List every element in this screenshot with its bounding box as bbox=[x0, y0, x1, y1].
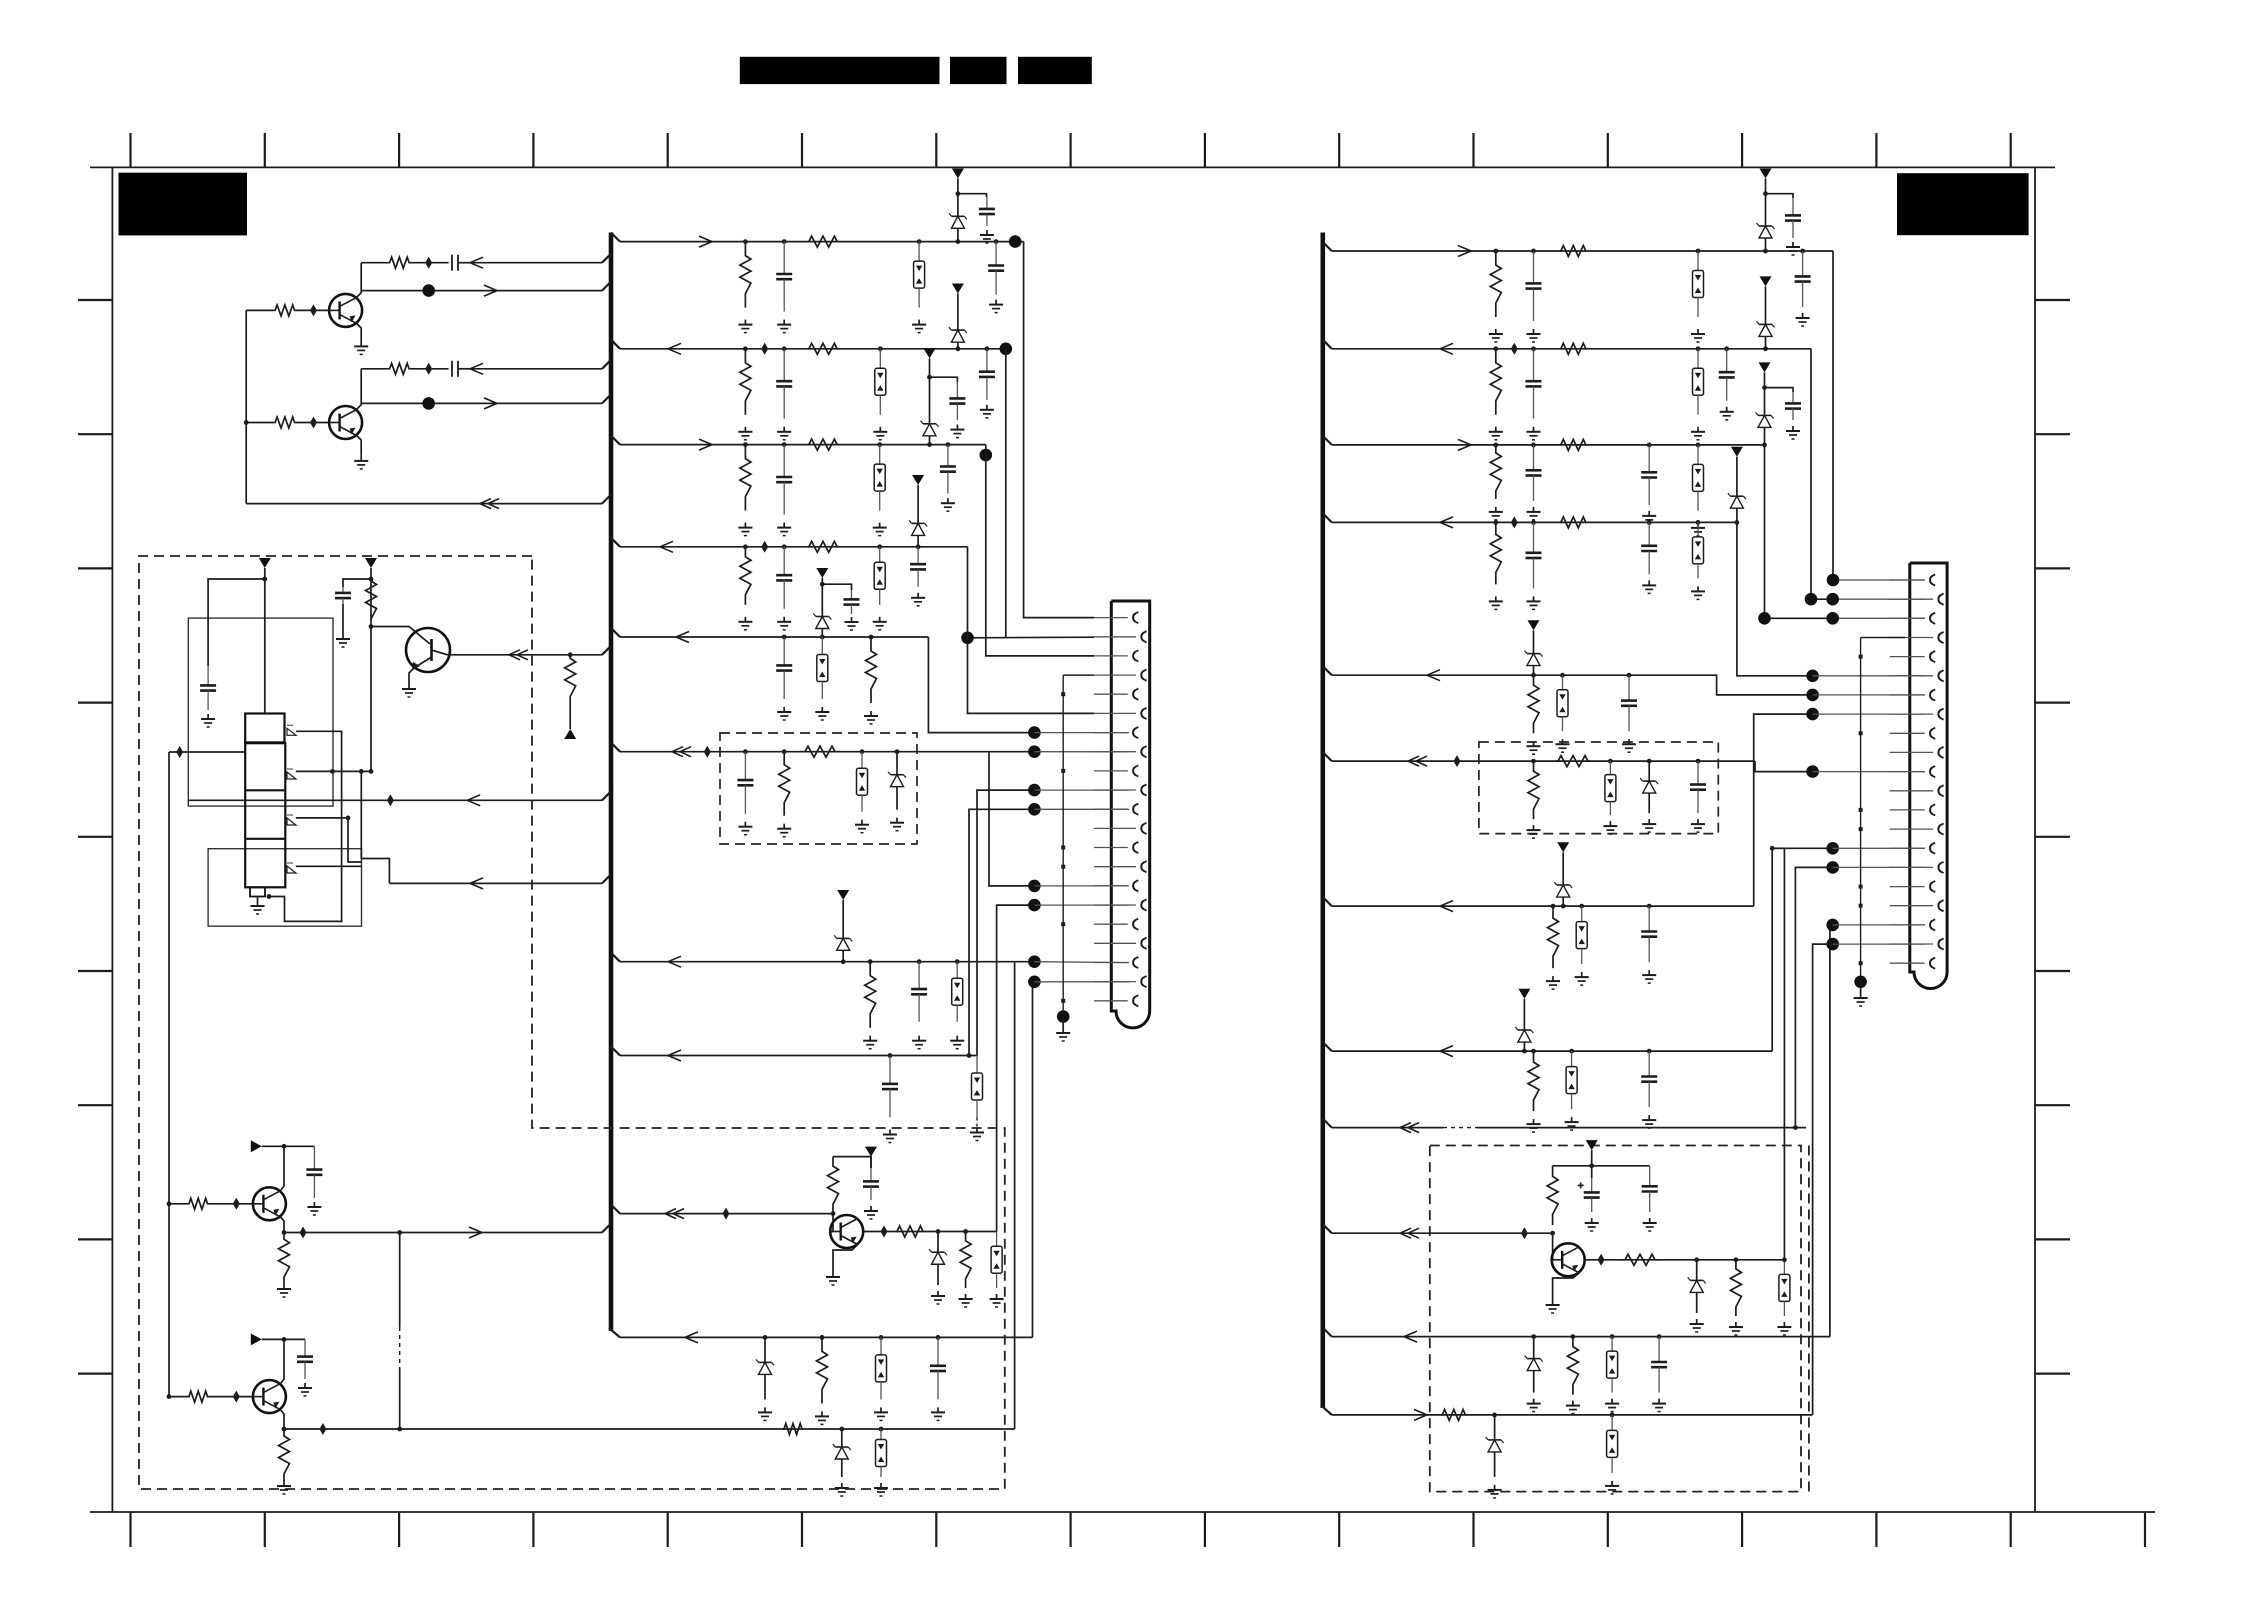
dual diode (R11) bbox=[1611, 1415, 1613, 1431]
junction R10-d bbox=[1657, 1334, 1662, 1339]
border left line bbox=[111, 167, 113, 1512]
wire R8 join bbox=[1772, 847, 1784, 849]
arrow (row R4) bbox=[1440, 517, 1453, 523]
junction L1-c bbox=[917, 239, 922, 244]
wire R4 to capacitor bbox=[410, 368, 449, 370]
corner dot (L2) bbox=[1000, 343, 1013, 356]
junction R11-a bbox=[1492, 1413, 1497, 1418]
junction L6-c bbox=[860, 749, 865, 754]
wire Q2 collector to row bbox=[357, 369, 362, 410]
power triangle (L4) bbox=[912, 475, 924, 485]
corner dot (L3 to pin3) bbox=[980, 449, 993, 462]
resistor (L9) bbox=[817, 1337, 828, 1403]
dashed filter box (right) bbox=[1479, 742, 1718, 834]
cap (L1 out) bbox=[995, 242, 997, 266]
junction L9-a bbox=[763, 1335, 768, 1340]
ground (L9 res) bbox=[821, 1411, 823, 1416]
power triangle (L7) bbox=[837, 890, 849, 900]
junction L5-c bbox=[869, 635, 874, 640]
cap (L3 pwr) bbox=[956, 382, 958, 398]
double arrow (row L6) bbox=[672, 747, 683, 752]
dual diode (R5) bbox=[1562, 675, 1564, 690]
ground (L5 dd) bbox=[821, 707, 823, 712]
row R7 from bus bbox=[1332, 905, 1754, 907]
junction R7-d bbox=[1647, 904, 1652, 909]
dot (pin7 feed) bbox=[1028, 726, 1041, 739]
wire L3 to connector pin3 bbox=[986, 445, 1094, 656]
cap (L3 out) bbox=[947, 445, 949, 467]
junction L2-b bbox=[782, 346, 787, 351]
zener (L1) bbox=[957, 203, 959, 216]
junction R11-b bbox=[1610, 1413, 1615, 1418]
resistor (L4 series) bbox=[808, 541, 838, 552]
cap (R1 pwr) bbox=[1792, 198, 1794, 215]
lead pin19 r bbox=[1833, 924, 1925, 926]
zener (R2) bbox=[1765, 312, 1767, 324]
resistor (R4 shunt) bbox=[1490, 522, 1501, 584]
power triangle (R2) bbox=[1760, 276, 1772, 286]
wire R6 to up arrow bbox=[569, 700, 571, 729]
lead pin3 r bbox=[1833, 617, 1925, 619]
junction L3-c bbox=[877, 442, 882, 447]
row L9 (bus bottom) bbox=[620, 1336, 1033, 1338]
resistor (L6 series) bbox=[800, 746, 840, 757]
double arrow (row R6) bbox=[1408, 756, 1419, 761]
connector J2 ground bus bbox=[1860, 638, 1862, 982]
zener (Q5 a) bbox=[937, 1232, 939, 1253]
junction R8-b bbox=[1531, 1049, 1536, 1054]
stub Q5 tri bbox=[870, 1157, 872, 1168]
arrow (row L2) bbox=[668, 343, 681, 349]
power triangle (R3) bbox=[1759, 362, 1771, 372]
ground (Q5 cap) bbox=[870, 1206, 872, 1211]
zener (R6) bbox=[1648, 761, 1650, 781]
wire C1 to bus bbox=[470, 262, 602, 264]
ground (IC) bbox=[257, 901, 259, 906]
junction R6-a bbox=[1531, 759, 1536, 764]
power triangle (R5) bbox=[1528, 620, 1540, 630]
arrow (row R5) bbox=[1427, 670, 1440, 676]
ground (L1 res) bbox=[744, 320, 746, 325]
resistor (Q7 base) bbox=[188, 1391, 209, 1402]
junction L2-d bbox=[956, 346, 961, 351]
junction L7-b bbox=[868, 959, 873, 964]
junction R9-a bbox=[1793, 1125, 1798, 1130]
dot (J2 gnd) bbox=[1854, 976, 1867, 989]
junction R5-b bbox=[1560, 673, 1565, 678]
ground (J2) bbox=[1860, 993, 1862, 998]
wire L7 power feed bbox=[842, 900, 844, 927]
ground (R11 zen) bbox=[1494, 1485, 1496, 1490]
lead pin20 bbox=[1034, 981, 1129, 983]
dot (pin15 feed) bbox=[1028, 880, 1041, 893]
wire Q2 collector row bbox=[361, 368, 388, 370]
dot (pin19 r) bbox=[1826, 919, 1839, 932]
ground (L7 dd) bbox=[956, 1036, 958, 1041]
dual diode (R3) bbox=[1697, 445, 1699, 465]
wire L1 power feed bbox=[957, 179, 959, 204]
cap (L1 shunt) bbox=[783, 242, 785, 274]
ground (L3 out cap) bbox=[947, 498, 949, 503]
junction L1-b bbox=[782, 239, 787, 244]
lead pin8 r bbox=[1813, 713, 1925, 715]
bus bottom corner bbox=[609, 1328, 620, 1337]
cap (R7) bbox=[1648, 906, 1650, 931]
junction (Q3 supply) bbox=[369, 577, 374, 582]
wire Q6 emitter bbox=[280, 1217, 284, 1233]
ground (R1 res) bbox=[1495, 329, 1497, 334]
cap (Q7 coll) bbox=[304, 1339, 306, 1356]
resistor (Q5 bias) bbox=[828, 1157, 839, 1214]
junction R10-b bbox=[1571, 1334, 1576, 1339]
arrow (row R1) bbox=[1458, 246, 1471, 252]
junction Q5-a bbox=[936, 1229, 941, 1234]
ground (Q7 cap) bbox=[304, 1383, 306, 1388]
wire Q5 emitter bbox=[833, 1245, 858, 1273]
cap (R2 shunt) bbox=[1533, 349, 1535, 381]
diamond (IC out row 1) bbox=[387, 794, 394, 806]
dot (connector gnd) bbox=[1057, 1010, 1070, 1023]
resistor (R6 series) bbox=[1556, 756, 1590, 767]
junction L7-c bbox=[917, 959, 922, 964]
junction dot (Q2 row) bbox=[422, 397, 435, 410]
lead pin15 r bbox=[1833, 847, 1925, 849]
cap (L6 a) bbox=[744, 752, 746, 780]
resistor (Q5 collector) bbox=[896, 1226, 924, 1237]
row L8 from bus bbox=[620, 1055, 977, 1057]
dashed filter box (left) bbox=[720, 733, 917, 844]
junction L6-d bbox=[895, 749, 900, 754]
junction L4-c bbox=[877, 544, 882, 549]
dot (pin2 r) bbox=[1826, 593, 1839, 606]
row L1 from bus bbox=[620, 241, 1024, 243]
dual diode (Q5) bbox=[996, 1232, 998, 1247]
double arrow (Q5 base row) bbox=[665, 1209, 676, 1214]
resistor (L1 series) bbox=[808, 236, 838, 247]
diamond (R6) bbox=[1454, 755, 1461, 767]
resistor (R7) bbox=[1548, 906, 1559, 968]
dual diode (R4) bbox=[1697, 522, 1699, 537]
junction (Q2 base) bbox=[244, 420, 249, 425]
wire base return row bbox=[246, 503, 602, 505]
arrow (row L1) bbox=[699, 236, 712, 242]
wire Q7 collector top bbox=[262, 1338, 305, 1340]
arrow (row R7) bbox=[1440, 901, 1453, 907]
wire L5 pwr to cap bbox=[822, 584, 851, 590]
diamond (L4) bbox=[761, 541, 768, 553]
power triangle (IC supply) bbox=[259, 558, 271, 568]
ground (R10 res) bbox=[1572, 1401, 1574, 1406]
arrow (row L9) bbox=[685, 1332, 698, 1338]
ground (R5 dd) bbox=[1562, 739, 1564, 744]
connector ground bus corner bbox=[1063, 674, 1094, 676]
up triangle (net marker) bbox=[564, 729, 576, 739]
wire Q5 bias top bbox=[833, 1157, 871, 1168]
wire R7 power feed bbox=[1562, 852, 1564, 876]
cap (Q6 coll) bbox=[313, 1146, 315, 1169]
cap (R3 shunt) bbox=[1533, 445, 1535, 470]
junction (L5 pwr) bbox=[820, 582, 825, 587]
resistor (Q5 b) bbox=[960, 1232, 971, 1289]
wire L2 power feed bbox=[957, 294, 959, 324]
zener (L9) bbox=[764, 1337, 766, 1362]
resistor (Q7 row) bbox=[783, 1424, 803, 1435]
cap (L2 out) bbox=[986, 349, 988, 372]
resistor (Q6 emitter) bbox=[279, 1233, 290, 1285]
ground (L2 res) bbox=[744, 427, 746, 432]
border top line bbox=[90, 166, 2055, 168]
ruler ticks top bbox=[131, 133, 2011, 167]
wire L5 power feed bbox=[821, 578, 823, 608]
wire Q1 collector to row bbox=[357, 263, 362, 298]
dual diode (L8) bbox=[976, 1056, 978, 1074]
inner solid box (sub-circuit 2) bbox=[208, 849, 361, 927]
junction L1-d bbox=[956, 239, 961, 244]
wire Q6 collector top bbox=[262, 1145, 315, 1147]
ground (L5 cap) bbox=[783, 707, 785, 712]
junction L7-d bbox=[955, 959, 960, 964]
zener (L3) bbox=[929, 415, 931, 424]
wire Q2 emitter bbox=[357, 436, 362, 456]
resistor (L4 shunt) bbox=[740, 547, 751, 605]
cap (L4 out) bbox=[917, 547, 919, 564]
junction (Q6 coll) bbox=[282, 1144, 287, 1149]
junction (Q8 coll riser) bbox=[1782, 1257, 1787, 1262]
cap (R4 shunt) bbox=[1533, 522, 1535, 552]
row L7 from bus bbox=[620, 961, 1034, 963]
vertical link Q6-Q7 bbox=[399, 1233, 401, 1328]
resistor R6 bbox=[565, 655, 576, 700]
ground (L9 cap) bbox=[937, 1407, 939, 1412]
row Q6 emitter to bus bbox=[284, 1232, 602, 1234]
junction L1-a bbox=[743, 239, 748, 244]
ground (Q6 res) bbox=[283, 1284, 285, 1289]
junction R8-d bbox=[1647, 1049, 1652, 1054]
cap (R6) bbox=[1697, 761, 1699, 784]
transistor Q3 (driver) bbox=[406, 628, 450, 672]
lead pin16 r bbox=[1833, 866, 1925, 868]
ground (L1 out cap) bbox=[995, 300, 997, 305]
wire Q2 base net bbox=[246, 422, 274, 424]
wire R2 to pin2 bbox=[1811, 349, 1833, 599]
double arrow (Q3 collector) bbox=[509, 650, 520, 655]
ground (L8 dd) bbox=[976, 1128, 978, 1133]
connector J2 outline bbox=[1910, 563, 1947, 989]
ruler ticks left bbox=[78, 300, 112, 1374]
resistor (Q6 base) bbox=[188, 1198, 209, 1209]
border right line bbox=[2034, 167, 2036, 1512]
ground (Q5 res2) bbox=[965, 1294, 967, 1299]
wire Q7 base 2 bbox=[209, 1396, 254, 1398]
ground (R1 pwr cap) bbox=[1792, 242, 1794, 247]
ground (R1 dd) bbox=[1697, 329, 1699, 334]
cap (R1 out) bbox=[1802, 251, 1804, 276]
dual diode (R6) bbox=[1609, 761, 1611, 775]
diamond (Q2 collector) bbox=[425, 363, 432, 375]
capacitor C4 bbox=[342, 587, 344, 593]
wire supply to C3 bbox=[208, 579, 265, 666]
wire IC pin 4 bbox=[296, 865, 362, 867]
ground (L4 res) bbox=[744, 617, 746, 622]
dual diode (L4) bbox=[879, 547, 881, 563]
lead pin7 r bbox=[1813, 694, 1925, 696]
ground (R10 cap) bbox=[1658, 1399, 1660, 1404]
row L5 from bus bbox=[620, 636, 928, 638]
dual diode (R7) bbox=[1581, 906, 1583, 922]
wire Q1 feedback row bbox=[361, 290, 602, 292]
arrow (row R8) bbox=[1440, 1046, 1453, 1052]
inner solid box (sub-circuit 1) bbox=[188, 618, 333, 806]
ground (L2 cap) bbox=[783, 427, 785, 432]
junction (Q6 base row) bbox=[167, 1201, 172, 1206]
ruler ticks right bbox=[2035, 300, 2070, 1374]
power triangle (R1) bbox=[1760, 169, 1772, 179]
arrow (row R2) bbox=[1440, 343, 1453, 349]
IC U1 divider 1 bbox=[245, 789, 285, 791]
wire collector to pin15 bbox=[1784, 848, 1832, 1260]
junction (IC pin2 b) bbox=[359, 769, 364, 774]
main bus (left half) bbox=[609, 233, 614, 1332]
ground (L1 cap) bbox=[783, 320, 785, 325]
arrow (row L3) bbox=[699, 439, 712, 445]
junction R4-a bbox=[1493, 520, 1498, 525]
lead pin16 bbox=[1034, 904, 1129, 906]
junction L8-a bbox=[888, 1053, 893, 1058]
junction L3-e bbox=[946, 442, 951, 447]
power triangle (L2) bbox=[952, 284, 964, 294]
wire R9 to pin16 bbox=[1795, 867, 1832, 1127]
arrow (Q2 feedback row) bbox=[484, 398, 497, 404]
arrow into C2 wire bbox=[470, 363, 483, 369]
junction R3-b bbox=[1531, 443, 1536, 448]
resistor (R11 series) bbox=[1441, 1409, 1466, 1420]
ground (Q5 zen) bbox=[937, 1291, 939, 1296]
ground (L7 res) bbox=[869, 1036, 871, 1041]
junction L2-a bbox=[743, 346, 748, 351]
ground (L3 pwr cap) bbox=[956, 425, 958, 430]
wire R3 pwr to cap bbox=[1765, 388, 1794, 392]
corner label box top-right bbox=[1897, 173, 2029, 235]
wire R5 power feed bbox=[1533, 630, 1535, 644]
resistor (L2 shunt) bbox=[740, 349, 751, 415]
ground (L7 cap) bbox=[918, 1036, 920, 1041]
resistor (L1 shunt) bbox=[740, 242, 751, 308]
junction (IC gnd stub) bbox=[267, 894, 272, 899]
capacitor C3 bbox=[207, 666, 209, 685]
wire Q1 base net bbox=[246, 309, 274, 311]
power triangle (Q3 supply) bbox=[365, 558, 377, 568]
ruler ticks bottom bbox=[131, 1512, 2146, 1547]
corner dot (R1) bbox=[1827, 574, 1840, 587]
dot (pin3 r) bbox=[1826, 612, 1839, 625]
diamond (L2) bbox=[761, 343, 768, 355]
cap (R5) bbox=[1628, 675, 1630, 700]
ground (R6 dd) bbox=[1609, 821, 1611, 826]
lead pin2 r bbox=[1833, 598, 1925, 600]
cap (R3 mid) bbox=[1648, 445, 1650, 472]
row R1 from bus bbox=[1332, 250, 1833, 252]
bus exit stubs (right bus) bbox=[1323, 242, 1332, 1337]
wire L6 to pin15 bbox=[989, 752, 1034, 886]
power triangle (L5) bbox=[816, 568, 828, 578]
ground (L3 res) bbox=[744, 523, 746, 528]
connector J2 pins bbox=[1890, 574, 1944, 968]
wire Q7 collector bbox=[280, 1339, 284, 1383]
cap (R10) bbox=[1658, 1337, 1660, 1362]
ground (C4) bbox=[342, 634, 344, 639]
junction R7-c bbox=[1579, 904, 1584, 909]
dot (pin15 r) bbox=[1826, 842, 1839, 855]
lead pin1 r bbox=[1833, 579, 1925, 581]
dot (pin8 feed) bbox=[1028, 745, 1041, 758]
wire Q8 emitter bbox=[1553, 1273, 1580, 1300]
ground (R7 res) bbox=[1552, 976, 1554, 981]
dot (pin16 r) bbox=[1826, 861, 1839, 874]
junction L4-d bbox=[916, 544, 921, 549]
junction (L1 pwr) bbox=[956, 191, 961, 196]
cap (L5 shunt) bbox=[783, 637, 785, 665]
zener (R4) bbox=[1736, 482, 1738, 496]
resistor (L7) bbox=[865, 962, 876, 1028]
lead pin20 r bbox=[1833, 943, 1925, 945]
junction (Q7 coll) bbox=[282, 1337, 287, 1342]
wire IC control row bbox=[169, 751, 245, 753]
row Q5 base from bus bbox=[620, 1213, 833, 1215]
junction R3-d bbox=[1762, 443, 1767, 448]
ground (R3 cap) bbox=[1533, 507, 1535, 512]
ground (L3 dd) bbox=[879, 523, 881, 528]
cap (L5 pwr) bbox=[851, 590, 853, 599]
wire R10 to pin19 bbox=[1830, 925, 1833, 1337]
ground (L3 cap) bbox=[783, 523, 785, 528]
wire Q5 collector to pin16 bbox=[997, 905, 1035, 1231]
resistor (R4 series) bbox=[1560, 517, 1587, 528]
row Q8 collector bbox=[1585, 1259, 1785, 1261]
corner label box top-left bbox=[119, 173, 248, 236]
arrow (row L4) bbox=[660, 541, 673, 547]
power triangle (R8) bbox=[1518, 989, 1530, 999]
capacitor C2 (series) bbox=[451, 361, 453, 377]
wire Q3 collector row bbox=[448, 654, 603, 656]
connector ground bus bbox=[1062, 675, 1064, 1017]
resistor (R5 shunt) bbox=[1528, 675, 1539, 733]
ground (R3 res) bbox=[1495, 507, 1497, 512]
double arrow (base return row) bbox=[480, 499, 491, 504]
diamond (IC control row) bbox=[176, 746, 183, 758]
wire IC out row 2 bbox=[389, 882, 602, 884]
ground (Q8 cap1) bbox=[1591, 1218, 1593, 1223]
ground (R10 dd) bbox=[1611, 1399, 1613, 1404]
junction R10-a bbox=[1531, 1334, 1536, 1339]
row R10 from bus bbox=[1332, 1336, 1830, 1338]
resistor (Q7 emitter) bbox=[279, 1429, 290, 1481]
ground (Q1 emitter) bbox=[360, 341, 362, 346]
wire Q8 base drop bbox=[1552, 1233, 1554, 1260]
cap (Q5 bypass) bbox=[870, 1168, 872, 1181]
ground (Q7 res) bbox=[283, 1481, 285, 1486]
power triangle (R7) bbox=[1557, 842, 1569, 852]
junction L9-d bbox=[936, 1335, 941, 1340]
lead pin11 bbox=[1034, 808, 1129, 810]
corner dot (L1 to pin1) bbox=[1009, 235, 1022, 248]
dot (pin11 feed) bbox=[1028, 803, 1041, 816]
cap (R4 mid) bbox=[1648, 522, 1650, 545]
junction (Q6 emitter) bbox=[282, 1230, 287, 1235]
wire R2 power feed bbox=[1765, 286, 1767, 312]
junction L2-e bbox=[985, 346, 990, 351]
zener (R8) bbox=[1523, 1021, 1525, 1030]
row Q6 base bbox=[169, 1203, 188, 1205]
